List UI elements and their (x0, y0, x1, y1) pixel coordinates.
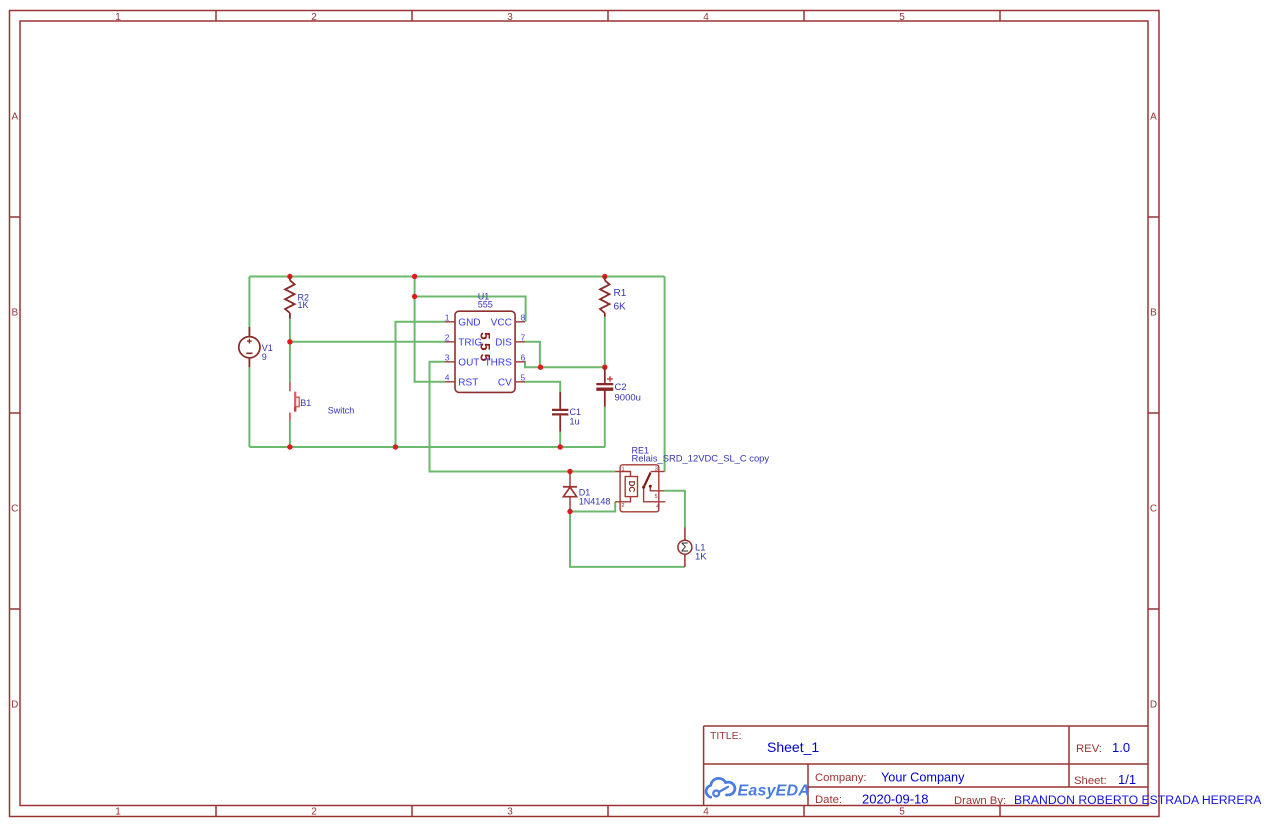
node bottom bus GND (393, 444, 398, 449)
node THRS-DIS (538, 365, 543, 370)
U1 pin names (458, 317, 512, 388)
capacitor C1 (552, 392, 568, 432)
wire RST (415, 277, 445, 382)
svg-text:1N4148: 1N4148 (579, 497, 611, 507)
svg-text:B: B (11, 308, 18, 319)
wire TRIG (290, 341, 445, 343)
svg-text:3: 3 (655, 467, 658, 473)
wire OUT to relay pin1 (430, 362, 616, 472)
junction dots (287, 274, 607, 514)
D1 labels (579, 487, 611, 506)
RE1 labels (632, 446, 770, 464)
wire top bus (249, 276, 664, 278)
svg-text:3: 3 (507, 806, 513, 817)
pushbutton B1 (290, 382, 299, 421)
svg-text:555: 555 (478, 300, 493, 310)
RE1 contacts (642, 485, 652, 489)
svg-text:C: C (1150, 504, 1157, 515)
svg-text:D: D (1150, 700, 1157, 711)
svg-text:4: 4 (445, 372, 450, 382)
U1 pin numbers (445, 312, 526, 382)
svg-text:2020-09-18: 2020-09-18 (862, 792, 929, 807)
svg-text:TRIG: TRIG (458, 337, 482, 348)
relay RE1 (615, 465, 665, 512)
svg-text:DIS: DIS (495, 337, 512, 348)
U1 labels (478, 292, 493, 310)
wire D1 to relay pin2 (570, 502, 615, 512)
voltage source V1 (239, 327, 260, 367)
node THRS-R1-C2 (602, 365, 607, 370)
C2 labels (615, 382, 641, 404)
wire L1 bottom loop (570, 512, 685, 567)
wire C1 bottom (559, 432, 561, 447)
svg-text:BRANDON ROBERTO ESTRADA HERRER: BRANDON ROBERTO ESTRADA HERRERA (1014, 793, 1262, 807)
wire C2 riser (604, 407, 606, 448)
svg-text:2: 2 (445, 332, 450, 342)
wire B1 bottom (289, 421, 291, 447)
wire THRS (524, 362, 605, 367)
svg-text:THRS: THRS (485, 357, 513, 368)
V1 labels (262, 343, 273, 362)
svg-text:RST: RST (458, 377, 478, 388)
svg-text:1: 1 (115, 806, 121, 817)
svg-text:Drawn By:: Drawn By: (954, 795, 1006, 807)
svg-text:1u: 1u (570, 417, 580, 427)
svg-text:C1: C1 (570, 407, 582, 417)
wire V1 bottom (248, 367, 250, 447)
svg-text:9: 9 (262, 352, 267, 362)
lamp L1 (678, 528, 692, 567)
svg-text:OUT: OUT (458, 357, 479, 368)
wire relay pin5 to L1 (664, 491, 685, 528)
svg-text:C: C (11, 504, 18, 515)
svg-text:Sheet:: Sheet: (1074, 775, 1107, 787)
svg-text:5: 5 (899, 806, 905, 817)
svg-text:7: 7 (521, 332, 526, 342)
svg-text:4: 4 (703, 12, 709, 23)
svg-text:1K: 1K (695, 551, 707, 562)
C1 labels (570, 407, 582, 427)
svg-text:EasyEDA: EasyEDA (738, 783, 811, 800)
R1 labels (614, 288, 627, 313)
svg-text:4: 4 (703, 806, 709, 817)
wire DIS (524, 342, 540, 367)
svg-text:2: 2 (311, 806, 317, 817)
svg-text:5: 5 (521, 372, 526, 382)
node top bus R2 (287, 274, 292, 279)
svg-text:Sheet_1: Sheet_1 (767, 739, 819, 755)
wire VCC (415, 297, 526, 322)
svg-text:2: 2 (311, 12, 317, 23)
node top bus RST riser (412, 274, 417, 279)
svg-text:9000u: 9000u (615, 393, 641, 404)
svg-text:5: 5 (899, 12, 905, 23)
svg-text:1: 1 (622, 467, 625, 473)
wire bottom bus (249, 446, 605, 448)
svg-text:DC: DC (627, 481, 636, 493)
resistor R1 (600, 277, 610, 317)
wire R1 bottom (604, 317, 606, 367)
wire GND (396, 322, 446, 447)
svg-text:TITLE:: TITLE: (710, 730, 742, 742)
svg-text:C2: C2 (615, 382, 627, 393)
resistor R2 (285, 277, 295, 319)
EasyEDA logo (706, 778, 735, 797)
node D1 bottom (567, 509, 572, 514)
svg-text:A: A (11, 112, 18, 123)
svg-text:1/1: 1/1 (1118, 772, 1136, 787)
U1 pin stubs (445, 322, 525, 382)
svg-text:B: B (1150, 308, 1157, 319)
svg-text:VCC: VCC (491, 317, 512, 328)
svg-text:D: D (11, 700, 18, 711)
R2 labels (298, 293, 310, 311)
wire CV (524, 382, 560, 392)
svg-text:1: 1 (115, 12, 121, 23)
svg-text:B1: B1 (300, 398, 311, 408)
node bottom bus C1 (558, 444, 563, 449)
L1 labels (695, 543, 707, 563)
diode D1 1N4148 (563, 472, 577, 512)
svg-text:CV: CV (498, 377, 512, 388)
svg-text:R1: R1 (614, 288, 627, 299)
wire R2 to B1 (289, 319, 291, 383)
svg-text:GND: GND (458, 317, 480, 328)
svg-text:8: 8 (521, 312, 526, 322)
TITLE BLOCK (704, 726, 1148, 805)
svg-text:6K: 6K (614, 302, 627, 313)
B1 labels (300, 398, 354, 416)
node D1 top (567, 469, 572, 474)
svg-text:REV:: REV: (1076, 743, 1102, 755)
svg-text:Your Company: Your Company (881, 771, 965, 785)
RE1 pin numbers (622, 467, 660, 511)
CIRCUIT (249, 277, 685, 567)
svg-text:2: 2 (622, 503, 625, 509)
svg-text:1K: 1K (298, 300, 309, 310)
svg-text:Date:: Date: (815, 794, 842, 806)
svg-text:Switch: Switch (328, 406, 355, 416)
op-amp U1 555 body (455, 311, 515, 392)
svg-text:1: 1 (445, 312, 450, 322)
svg-text:1.0: 1.0 (1112, 740, 1130, 755)
svg-text:6: 6 (521, 352, 526, 362)
svg-text:5: 5 (655, 494, 658, 500)
svg-text:3: 3 (445, 352, 450, 362)
capacitor C2 polarized (596, 367, 613, 406)
svg-text:Relais_SRD_12VDC_SL_C copy: Relais_SRD_12VDC_SL_C copy (632, 453, 770, 464)
svg-text:Company:: Company: (815, 772, 867, 784)
svg-text:Σ: Σ (681, 541, 689, 555)
svg-text:3: 3 (507, 12, 513, 23)
wire V1 top (248, 277, 250, 328)
wire right drop to relay pin3 (664, 277, 666, 472)
svg-text:A: A (1150, 112, 1157, 123)
node bottom bus B1 (287, 444, 292, 449)
svg-text:4: 4 (656, 504, 659, 510)
node VCC branch (412, 294, 417, 299)
node top bus R1 (602, 274, 607, 279)
node TRIG branch (287, 339, 292, 344)
